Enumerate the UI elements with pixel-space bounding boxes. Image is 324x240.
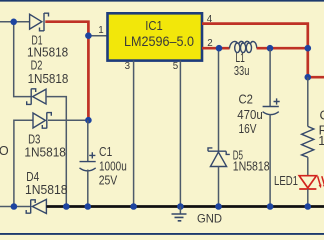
wire D1 cathode to VIN node red <box>45 22 88 121</box>
node input B junction <box>11 203 18 210</box>
diode D4 <box>26 199 46 213</box>
wire L1 to output corner red <box>257 47 308 50</box>
svg-text:L1: L1 <box>235 51 245 65</box>
ground rail <box>46 205 324 208</box>
diode D1 <box>30 13 49 31</box>
svg-text:1N5818: 1N5818 <box>28 72 69 86</box>
svg-text:1N5818: 1N5818 <box>25 183 68 197</box>
svg-text:1N5818: 1N5818 <box>24 145 66 159</box>
wire D3 anode lead <box>14 120 33 206</box>
frame bottom border <box>0 233 324 235</box>
svg-text:25V: 25V <box>99 174 118 188</box>
node output branch junction <box>305 74 312 81</box>
frame top border <box>0 0 324 2</box>
wire input A horizontal <box>0 21 30 23</box>
svg-text:LED1: LED1 <box>274 174 298 188</box>
node D5 rail junction <box>215 203 222 210</box>
wire IC pin 5 to ground rail <box>179 61 181 207</box>
wire IC pin 2 output red <box>202 47 230 50</box>
svg-text:33u: 33u <box>234 64 250 78</box>
wire input A down to D2 cathode <box>14 22 31 97</box>
svg-text:5: 5 <box>173 61 179 72</box>
node L1 output junction <box>267 45 274 52</box>
wire C1 top <box>87 120 89 161</box>
svg-text:16V: 16V <box>239 122 257 136</box>
node D2 rail junction <box>63 203 70 210</box>
wire LED1 cathode to rail <box>307 189 309 207</box>
svg-text:LM2596–5.0: LM2596–5.0 <box>124 34 194 49</box>
svg-text:3: 3 <box>125 61 131 72</box>
ground symbol <box>172 207 187 221</box>
svg-text:C: C <box>320 109 324 123</box>
svg-text:1000u: 1000u <box>99 159 127 173</box>
svg-text:D2: D2 <box>31 59 43 73</box>
svg-text:1N5818: 1N5818 <box>233 160 270 174</box>
svg-text:IC1: IC1 <box>145 19 163 33</box>
node C1 rail junction <box>85 203 92 210</box>
diode D5 <box>208 148 230 167</box>
diode D3 <box>33 112 51 128</box>
wire C1 bottom <box>87 170 89 207</box>
diode D2 <box>27 89 46 105</box>
svg-text:GND: GND <box>197 211 222 225</box>
node C2 rail junction <box>267 203 274 210</box>
wire +5V output to edge red <box>308 76 324 79</box>
wire R1 to LED1 <box>307 157 309 176</box>
svg-text:1K: 1K <box>318 134 324 148</box>
svg-text:4: 4 <box>207 14 213 25</box>
node feedback junction <box>305 45 312 52</box>
capacitor C2 <box>263 98 280 114</box>
wire output down red <box>306 48 309 77</box>
capacitor C1 <box>80 152 96 171</box>
inductor L1 <box>229 41 256 52</box>
resistor R1 <box>302 126 314 157</box>
wire C2 top <box>269 49 271 106</box>
wire D2 anode to ground rail <box>46 97 66 207</box>
svg-text:470u: 470u <box>237 108 262 122</box>
node VIN C1 junction <box>85 117 92 124</box>
wire IC pin 4 feedback red <box>202 24 308 49</box>
svg-text:1N5818: 1N5818 <box>27 45 68 59</box>
wire D3 cathode to VIN node <box>48 119 88 121</box>
node pin5 rail junction <box>177 203 184 210</box>
node pin3 rail junction <box>130 203 137 210</box>
svg-text:C2: C2 <box>239 92 253 106</box>
IC U1 body <box>108 13 203 60</box>
wire VIN node to IC pin 1 <box>88 35 106 37</box>
wire D5 cathode vertical <box>218 49 220 151</box>
wire R1 top <box>307 77 309 126</box>
node LED1 rail junction <box>305 203 312 210</box>
svg-text:2: 2 <box>207 38 212 49</box>
LED LED1 <box>299 176 324 189</box>
svg-text:C1: C1 <box>99 145 112 159</box>
wire IC pin 3 to ground rail <box>133 61 135 207</box>
node VIN pin1 junction <box>85 32 92 39</box>
node input A junction <box>10 19 17 26</box>
svg-text:1: 1 <box>98 25 103 36</box>
node switch node junction <box>216 45 223 52</box>
wire D5 anode to rail <box>218 167 220 207</box>
wire C2 bottom <box>269 114 271 207</box>
svg-text:O: O <box>0 144 9 158</box>
wire input B to D4 cathode <box>0 206 31 208</box>
